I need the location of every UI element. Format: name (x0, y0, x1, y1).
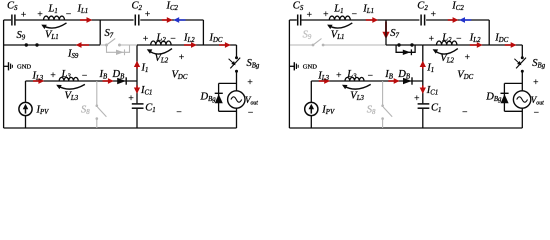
svg-text:IS9: IS9 (67, 49, 79, 61)
svg-text:S9: S9 (17, 30, 26, 42)
svg-text:S9: S9 (303, 30, 312, 42)
